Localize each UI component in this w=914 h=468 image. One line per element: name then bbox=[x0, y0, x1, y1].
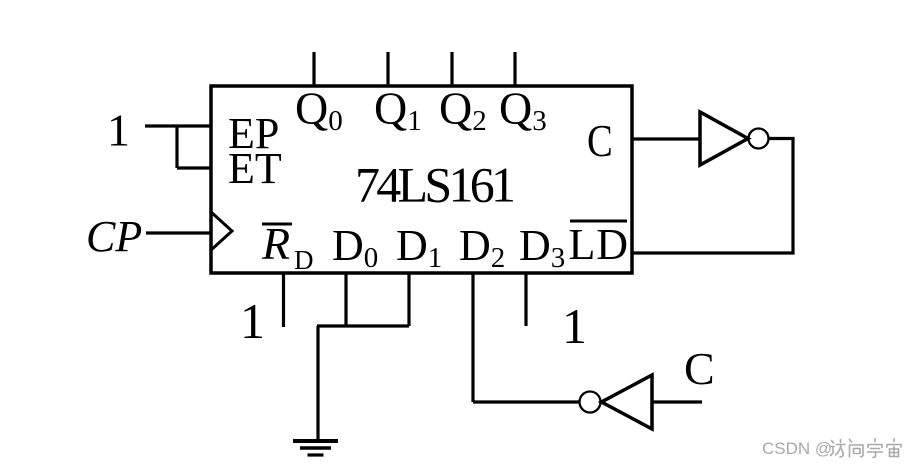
svg-text:D1: D1 bbox=[396, 221, 442, 274]
svg-text:Q0: Q0 bbox=[295, 83, 343, 138]
svg-text:1: 1 bbox=[107, 105, 130, 156]
svg-text:D0: D0 bbox=[332, 221, 378, 274]
svg-text:D2: D2 bbox=[459, 221, 505, 274]
svg-text:D3: D3 bbox=[519, 221, 565, 274]
svg-text:ET: ET bbox=[228, 144, 282, 193]
svg-text:Q1: Q1 bbox=[374, 83, 422, 138]
svg-text:CSDN @: CSDN @ bbox=[762, 439, 832, 458]
svg-text:Q3: Q3 bbox=[499, 83, 547, 138]
svg-text:LD: LD bbox=[569, 220, 629, 269]
svg-text:Q2: Q2 bbox=[439, 83, 487, 138]
svg-text:CP: CP bbox=[86, 212, 142, 261]
svg-text:74LS161: 74LS161 bbox=[355, 157, 516, 213]
svg-text:C: C bbox=[587, 116, 613, 167]
svg-text:C: C bbox=[684, 343, 715, 394]
svg-text:1: 1 bbox=[562, 298, 587, 354]
svg-text:1: 1 bbox=[240, 293, 265, 349]
svg-text:R: R bbox=[261, 218, 290, 269]
svg-text:D: D bbox=[294, 245, 314, 275]
